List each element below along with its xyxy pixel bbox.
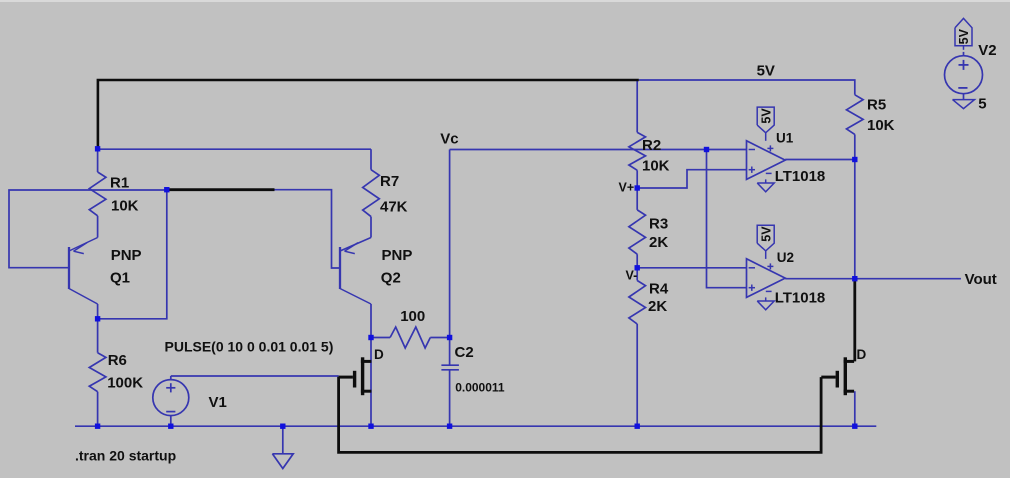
svg-text:R2: R2 [642, 137, 661, 154]
wire R3 bottom stub [636, 254, 638, 268]
wire V minus node to U2 inverting input [637, 267, 746, 269]
node rail ground [280, 424, 285, 429]
voltage source V2 circle [945, 56, 983, 94]
wire R2 top stub [636, 80, 638, 132]
resistor R1 body [89, 172, 106, 216]
svg-text:R1: R1 [110, 174, 129, 191]
wire V2 top stem [963, 52, 965, 56]
node Q1 base-R1 junction [164, 187, 169, 192]
MOSFET M2 symbol [844, 357, 847, 395]
wire ground stub below rail [282, 426, 284, 454]
wire R1 top stub [97, 149, 99, 172]
svg-text:PULSE(0 10 0 0.01 0.01 5): PULSE(0 10 0 0.01 0.01 5) [165, 339, 334, 355]
node V- junction [635, 265, 640, 270]
net flag 5V at U1 supply [757, 107, 774, 133]
svg-text:5V: 5V [759, 226, 773, 242]
node Q1 collector junction [95, 316, 100, 321]
resistor R4 body [629, 281, 646, 325]
resistor R2 body [629, 132, 646, 170]
wire Vc branch down to U2 plus input [707, 150, 747, 288]
svg-text:5: 5 [978, 95, 986, 112]
svg-text:R5: R5 [867, 96, 886, 113]
wire R6 bottom stub [97, 392, 99, 427]
wire R6 top stub [97, 319, 99, 353]
capacitor C2 plates [441, 364, 459, 366]
resistor R8 100 ohm body [390, 327, 430, 348]
wire R5 node down to U2 output node [854, 160, 856, 279]
node C2 top junction [447, 335, 452, 340]
wire V1 top stub [170, 376, 172, 380]
svg-text:R4: R4 [649, 281, 669, 298]
node rail C2 [447, 424, 452, 429]
svg-text:V2: V2 [978, 42, 996, 59]
svg-text:R7: R7 [380, 173, 399, 190]
node R1 top junction [95, 146, 100, 151]
resistor R3 body [629, 210, 646, 254]
transistor Q2 PNP symbol [339, 247, 341, 289]
ground flag U1 V- pin [757, 183, 774, 192]
wire V2 bottom stem [963, 94, 965, 100]
wire Q1 emitter stub [97, 216, 99, 238]
node rail R6 [95, 424, 100, 429]
node rail V1 [168, 424, 173, 429]
wire V1 top lead to M1 gate [171, 375, 339, 377]
svg-text:PNP: PNP [111, 247, 142, 264]
svg-text:R3: R3 [649, 215, 668, 232]
svg-text:.tran 20 startup: .tran 20 startup [75, 448, 176, 464]
wire Vout lead [855, 278, 961, 280]
net flag 5V at V2 plus terminal [955, 18, 972, 45]
svg-text:C2: C2 [455, 344, 474, 361]
wire blue segment to Q2 base corner [275, 190, 341, 268]
svg-text:V1: V1 [209, 394, 227, 411]
wire top-left horizontal from R1 top junction to R7 [98, 148, 371, 150]
wire black Q1 junction to Q2 base segment [167, 188, 275, 191]
wire U1 output to R5 node [785, 159, 855, 161]
wire M1 drain column to rail [370, 338, 372, 427]
node M1 drain junction [368, 335, 373, 340]
op-amp U2 LT1018 body [747, 259, 786, 298]
svg-text:10K: 10K [867, 117, 895, 134]
wire C2 bottom stub [449, 370, 451, 427]
wire R3 top stub [636, 188, 638, 210]
wire black 5V feed from R1 junction to R2 top [98, 80, 639, 149]
svg-text:5V: 5V [957, 28, 971, 44]
svg-text:100K: 100K [107, 375, 143, 392]
wire R4 bottom to rail [636, 324, 638, 426]
svg-text:5V: 5V [757, 62, 775, 79]
wire R7 top stub [370, 149, 372, 170]
svg-text:0.000011: 0.000011 [455, 381, 505, 395]
MOSFET M1 symbol [361, 357, 364, 395]
svg-text:2K: 2K [649, 234, 668, 251]
svg-text:47K: 47K [380, 199, 408, 216]
net flag 5V at U2 supply [757, 225, 774, 251]
svg-text:R6: R6 [108, 352, 127, 369]
wire black M2 drain from Vout node [853, 279, 856, 362]
svg-text:LT1018: LT1018 [775, 168, 826, 185]
ground flag U2 V- pin [757, 301, 774, 310]
wire Vc horizontal to U1 inverting input [450, 149, 747, 151]
wire Q2 collector stub [370, 304, 372, 338]
node V+ junction [635, 185, 640, 190]
svg-text:U2: U2 [777, 250, 794, 265]
wire Q1 collector stub [97, 304, 99, 319]
node rail M2 [852, 424, 857, 429]
wire 100 ohm right lead [430, 337, 449, 339]
svg-text:10K: 10K [642, 157, 670, 174]
wire 5V rail blue segment [639, 80, 855, 95]
wire Q2 emitter stub [370, 217, 372, 238]
resistor R5 body [847, 95, 864, 135]
wire V1 bottom stub [170, 416, 172, 427]
wire 100 ohm left lead [371, 337, 390, 339]
svg-text:V-: V- [626, 269, 638, 283]
wire Vc vertical [449, 150, 451, 338]
svg-text:D: D [857, 347, 867, 362]
wire Q1 base loop left [9, 190, 167, 268]
wire C2 top stub [449, 338, 451, 366]
wire V plus node to U1 plus input [637, 170, 746, 188]
wire R2 bottom stub [636, 170, 638, 188]
voltage source V1 circle [153, 380, 189, 416]
wire R5 bottom stub [854, 134, 856, 159]
svg-text:Q1: Q1 [110, 269, 130, 286]
svg-text:100: 100 [400, 308, 425, 325]
svg-text:10K: 10K [111, 198, 139, 215]
wire M2 source to rail [854, 391, 856, 426]
svg-text:D: D [374, 347, 384, 362]
svg-text:V+: V+ [619, 181, 635, 195]
node rail R4 [635, 424, 640, 429]
ground flag V2 minus terminal [953, 100, 975, 109]
resistor R6 body [89, 353, 106, 392]
node Vout junction [852, 276, 857, 281]
wire Q1 collector to Q2 base column [98, 190, 167, 319]
wire black M1 gate down and across to M2 gate [339, 377, 821, 453]
op-amp U1 LT1018 body [747, 141, 786, 180]
svg-text:2K: 2K [648, 298, 667, 315]
node Vc-U1 junction [704, 147, 709, 152]
svg-text:Vout: Vout [965, 271, 997, 288]
svg-text:Vc: Vc [440, 131, 458, 148]
wire U2 output [785, 278, 855, 280]
svg-text:U1: U1 [776, 131, 794, 146]
node R5 bottom junction [852, 157, 857, 162]
wire R4 top stub [636, 268, 638, 281]
wire bottom ground rail [75, 425, 876, 427]
resistor R7 body [363, 170, 380, 217]
svg-text:PNP: PNP [382, 247, 413, 264]
transistor Q1 PNP symbol [68, 247, 70, 289]
svg-text:5V: 5V [759, 108, 773, 124]
svg-text:LT1018: LT1018 [775, 289, 826, 306]
ground flag main ground symbol [272, 454, 293, 469]
svg-text:Q2: Q2 [381, 269, 401, 286]
node rail M1 [368, 424, 373, 429]
